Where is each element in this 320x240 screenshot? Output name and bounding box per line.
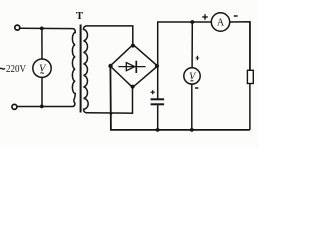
wire bridge right vertex riser xyxy=(157,22,159,66)
label ~220V xyxy=(0,68,5,69)
wire resistor top lead xyxy=(249,22,251,71)
label - at voltmeter V2 xyxy=(195,87,198,89)
ammeter A xyxy=(211,13,229,31)
transformer core xyxy=(80,25,82,113)
wire top input xyxy=(20,27,74,29)
wire right vertex down to capacitor xyxy=(157,66,159,99)
node bridge top vertex xyxy=(131,44,135,48)
wire V1 top lead xyxy=(41,28,43,59)
wire V2 top lead xyxy=(191,22,193,67)
voltmeter V2 xyxy=(184,68,200,84)
label + at voltmeter V2 xyxy=(196,56,200,60)
transformer primary winding xyxy=(72,29,75,107)
node bridge bottom vertex xyxy=(131,85,135,89)
diode inside bridge xyxy=(118,61,145,73)
label - at ammeter xyxy=(234,15,238,17)
svg-text:A: A xyxy=(217,18,225,29)
wire capacitor to bus xyxy=(157,105,159,130)
svg-text:T: T xyxy=(76,10,84,22)
wire V2 bottom lead xyxy=(191,85,193,130)
wire top DC rail xyxy=(157,21,211,23)
wire resistor bottom lead xyxy=(249,84,251,130)
resistor R load xyxy=(247,70,253,83)
wire bridge left vertex down to bottom bus xyxy=(110,66,249,130)
label + at ammeter xyxy=(202,14,208,20)
wire secondary bottom to bridge xyxy=(86,87,133,113)
svg-text:220V: 220V xyxy=(6,63,26,75)
node V2 tap on rail xyxy=(190,20,194,24)
wire rail to load corner xyxy=(230,22,250,71)
node bridge right vertex xyxy=(155,64,159,68)
voltmeter V1 xyxy=(33,59,51,77)
node junction top xyxy=(40,27,44,31)
terminal input top xyxy=(15,25,20,30)
node bridge left vertex xyxy=(108,64,112,68)
node capacitor-bus junction xyxy=(156,128,160,132)
transformer secondary winding xyxy=(83,26,88,113)
terminal input bottom xyxy=(12,104,17,109)
wire V1 bottom lead xyxy=(41,77,43,106)
wire secondary top to bridge xyxy=(86,26,133,45)
node V2-bus junction xyxy=(190,128,194,132)
node wire crossing xyxy=(110,112,113,115)
wire bottom input xyxy=(17,106,73,108)
bridge rectifier diamond xyxy=(110,45,157,88)
capacitor C (filter) xyxy=(151,90,165,105)
node junction bottom xyxy=(40,105,44,109)
